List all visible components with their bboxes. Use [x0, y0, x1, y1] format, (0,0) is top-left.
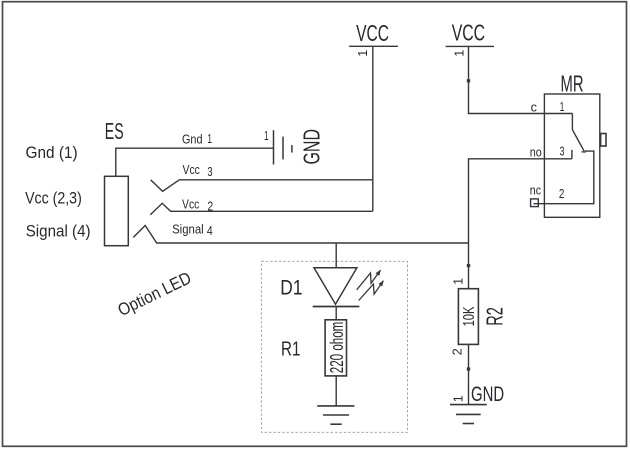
- svg-text:GND: GND: [471, 382, 504, 406]
- svg-text:Signal (4): Signal (4): [26, 222, 91, 241]
- svg-text:1: 1: [452, 395, 466, 402]
- svg-text:Signal: Signal: [172, 222, 204, 236]
- svg-text:Vcc: Vcc: [182, 197, 199, 211]
- wire: Vcc 2 net with jog, to VCC rail: [150, 203, 372, 214]
- svg-text:VCC: VCC: [452, 20, 485, 46]
- wire: Vcc 3 net with jog, to VCC rail: [151, 180, 373, 192]
- dotted option group box: [261, 261, 407, 432]
- junction tick at R2 pin 2: [467, 367, 470, 370]
- LED D1 triangle: [314, 268, 357, 304]
- svg-text:1: 1: [264, 129, 269, 143]
- power symbol VCC (right): [446, 45, 494, 47]
- svg-text:Gnd: Gnd: [182, 132, 203, 146]
- svg-text:D1: D1: [280, 275, 302, 299]
- svg-text:Gnd (1): Gnd (1): [26, 143, 78, 162]
- svg-text:1: 1: [452, 278, 466, 285]
- svg-text:Vcc: Vcc: [183, 163, 200, 177]
- svg-text:nc: nc: [530, 184, 541, 198]
- wire: LED cathode to R1: [335, 307, 337, 320]
- no-connect marker square on nc pin: [531, 199, 539, 207]
- svg-text:VCC: VCC: [356, 20, 389, 46]
- resistor R2 body: [458, 289, 478, 345]
- svg-text:220 ohom: 220 ohom: [327, 322, 347, 374]
- wire: R2 pin 2 down to GND: [468, 344, 470, 404]
- pin 3 contact tick: [571, 150, 573, 159]
- wire: VCC(left) vertical rail down to Vcc2 net: [372, 46, 374, 211]
- connector ES body: [105, 176, 129, 245]
- svg-text:ES: ES: [105, 118, 124, 144]
- svg-text:Vcc (2,3): Vcc (2,3): [25, 188, 82, 207]
- svg-text:10K: 10K: [461, 306, 478, 326]
- svg-text:1: 1: [207, 132, 212, 146]
- wire: R1 to ground: [335, 376, 337, 406]
- svg-text:1: 1: [560, 100, 565, 114]
- wire: nc path inside MR: [534, 151, 594, 204]
- svg-text:3: 3: [207, 165, 212, 179]
- wire: LED branch down from Signal net: [335, 243, 337, 268]
- ground pin symbol GND (top, pointing right): [274, 130, 292, 164]
- svg-text:GND: GND: [298, 129, 324, 165]
- resistor R1 body: [325, 320, 346, 376]
- junction tick on VCC rail: [467, 79, 470, 82]
- svg-text:no: no: [530, 146, 542, 160]
- svg-text:2: 2: [559, 187, 565, 201]
- svg-text:2: 2: [207, 200, 213, 214]
- svg-text:MR: MR: [561, 71, 584, 97]
- svg-text:1: 1: [452, 50, 466, 57]
- actuator button of MR: [601, 134, 606, 147]
- svg-text:c: c: [531, 101, 537, 115]
- svg-text:4: 4: [207, 224, 213, 238]
- junction tick at R2 pin 1: [467, 264, 470, 267]
- wire: MR no pin left and down to R2: [469, 159, 572, 289]
- lever tip tick: [582, 151, 587, 153]
- microswitch MR body: [544, 94, 599, 217]
- wire: VCC(right) down and over to MR pin c: [469, 46, 573, 113]
- power symbol VCC (left): [349, 45, 398, 47]
- svg-text:1: 1: [356, 50, 370, 57]
- ground symbol under R1: [317, 406, 354, 424]
- svg-text:3: 3: [560, 144, 565, 158]
- svg-text:2: 2: [451, 348, 465, 355]
- wire: Gnd net from ES to GND pin: [116, 148, 274, 176]
- LED light arrow 1: [357, 270, 381, 290]
- LED light arrow 2: [359, 281, 384, 301]
- switch lever from pin 1: [572, 114, 584, 152]
- LED D1 cathode bar: [313, 306, 360, 308]
- ground pin GND (bottom right): [450, 405, 487, 424]
- wire: Signal net from ES to junction column: [133, 226, 468, 244]
- svg-text:R1: R1: [281, 339, 300, 361]
- svg-text:R2: R2: [481, 307, 507, 326]
